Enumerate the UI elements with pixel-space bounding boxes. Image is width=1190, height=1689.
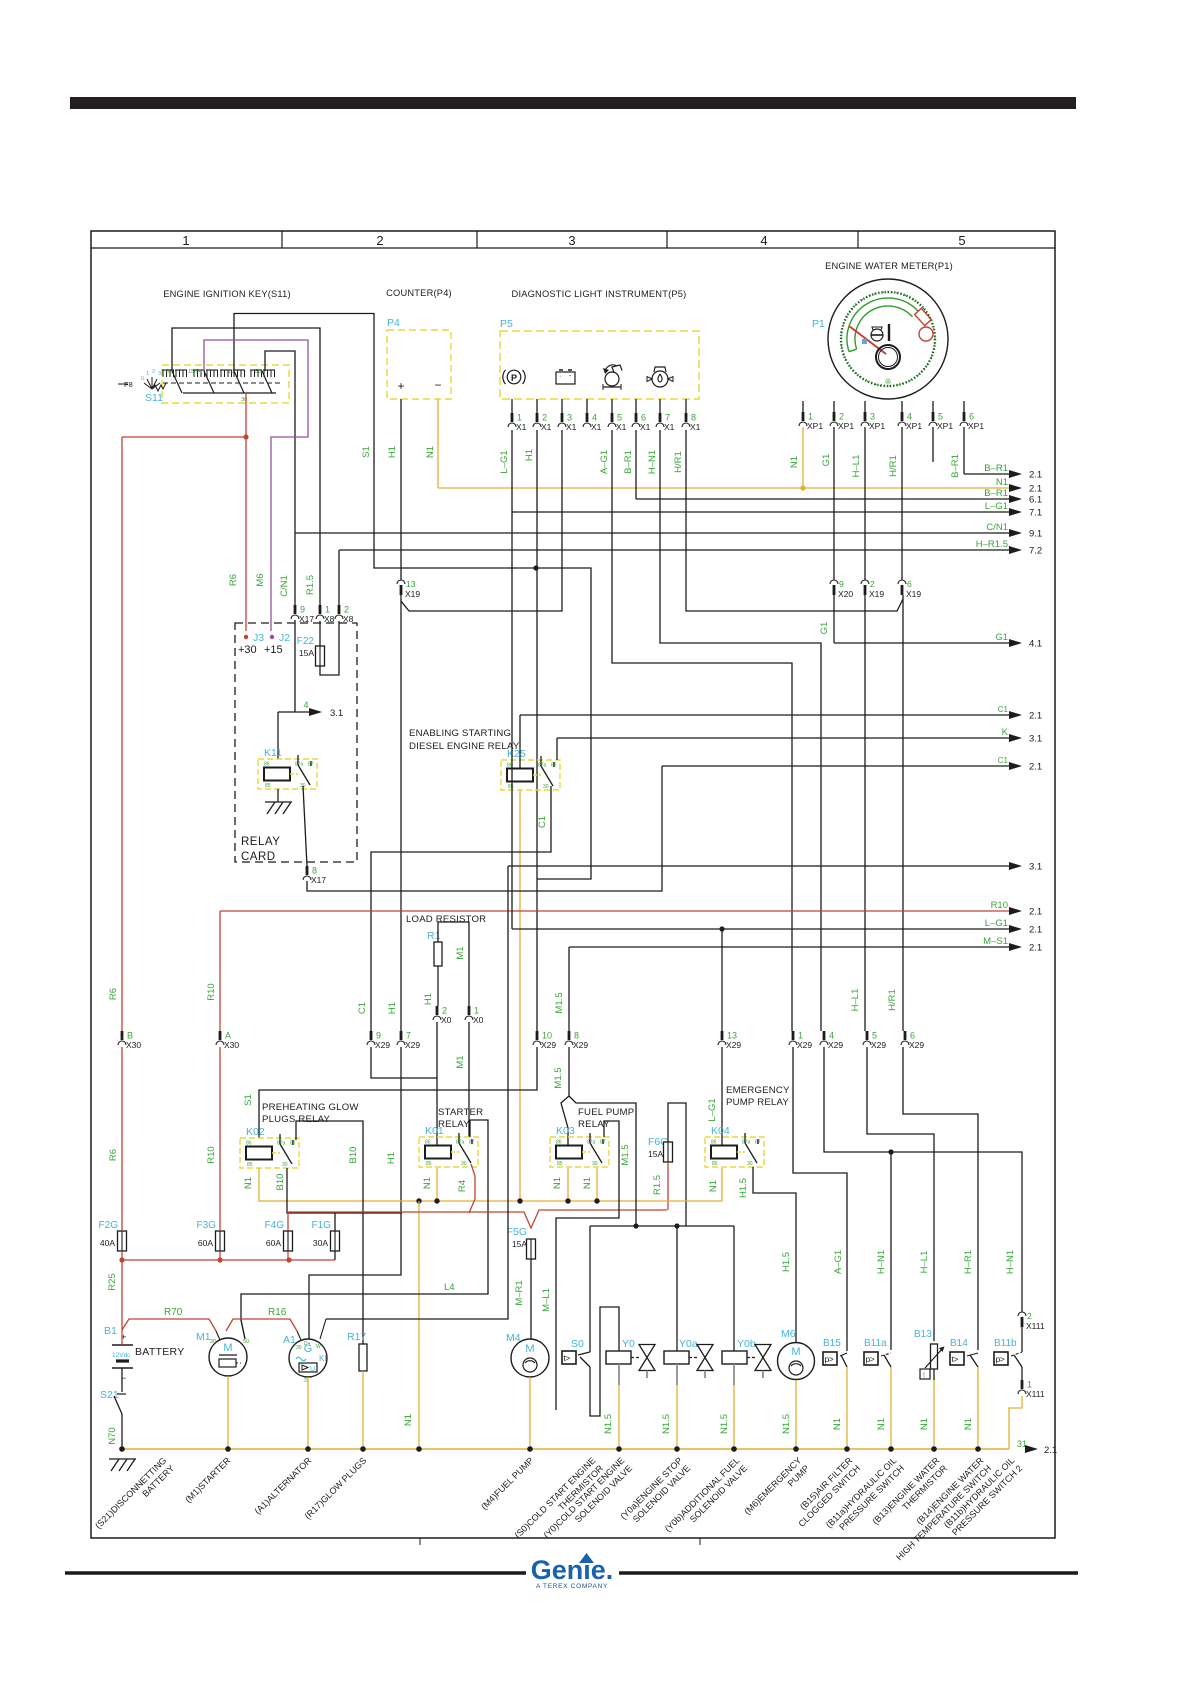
svg-text:R1.5: R1.5 [305,575,316,595]
Genie logo i-roof [579,1553,594,1563]
svg-text:4: 4 [303,700,308,710]
wire H/R1 XP1-4 to X19-6 [901,427,903,580]
wire P5 pin 8 stub [685,399,687,413]
wire P5 pin 2 stub [536,399,538,413]
S11 switch blades [172,371,182,393]
connector pin X30-A [219,1031,222,1040]
svg-text:X1: X1 [616,422,627,432]
svg-text:6: 6 [907,579,912,589]
counter P4 box [387,330,451,399]
wire F1G top [334,1213,336,1231]
svg-text:86: 86 [246,1141,252,1147]
wire M1.5 X29-8 to K03 coil [561,1047,569,1146]
svg-text:2: 2 [344,605,349,615]
wire battery plus stub [121,1330,123,1345]
svg-text:H/R1: H/R1 [673,451,684,473]
frame column divider 4 [666,231,668,248]
svg-text:H1: H1 [386,1152,397,1164]
svg-text:87a: 87a [538,763,547,769]
junction ground bus x=734 [731,1446,737,1452]
svg-text:X30: X30 [126,1040,141,1050]
wire P1 pin 1 stub [802,401,804,412]
svg-text:N1: N1 [403,1414,414,1426]
svg-text:X29: X29 [375,1040,390,1050]
wire B10 K02-87 to R17 [296,1121,363,1344]
svg-text:8: 8 [312,866,317,876]
svg-text:M1.5: M1.5 [553,1067,564,1088]
junction ground bus x=796 [793,1446,799,1452]
svg-text:D+: D+ [304,1341,311,1347]
wire N1 K01 coil drop [436,1168,438,1201]
S11 contact combs [162,369,174,371]
svg-text:H1.5: H1.5 [738,1178,749,1198]
svg-text:4: 4 [760,233,767,248]
connector pin X19-2 [861,580,869,584]
svg-text:N1: N1 [243,1177,254,1189]
svg-text:10: 10 [542,1031,552,1041]
junction N1 bus x=437 [434,1198,439,1203]
svg-text:A–G1: A–G1 [599,450,610,474]
connector pin X1-6 [635,413,638,422]
svg-text:R25: R25 [107,1273,118,1290]
junction ground bus x=419 [416,1446,422,1452]
svg-text:M1.5: M1.5 [620,1144,631,1165]
wire P5 pin 3 stub [561,399,563,413]
key zigzag link [152,383,166,391]
wire K11 coil to ground [277,789,279,802]
wire R25 battery feed [121,1260,123,1330]
wire M-L1 K03-87 to fuel pump [556,1121,619,1410]
svg-text:L4: L4 [444,1282,455,1293]
svg-text:B10: B10 [275,1174,286,1191]
svg-text:N1: N1 [832,1418,843,1430]
label B11b hydraulic oil pressure switch 2 [942,1455,1024,1537]
svg-text:M–L1: M–L1 [541,1288,552,1312]
fold tick marks [419,1538,421,1545]
wire P1 pin 5 stub [932,401,934,412]
connector pin XP1-4 [901,412,904,421]
wire H/R1 X19-6 down to X29-6 [902,595,904,1031]
svg-text:L–G1: L–G1 [499,450,510,473]
svg-text:B1: B1 [104,1325,117,1337]
connector pin X29-9 [370,1031,373,1040]
wire feed to Y0b [733,1226,735,1351]
svg-text:KI: KI [319,1354,327,1363]
svg-text:2.1: 2.1 [1029,711,1042,722]
svg-text:F2G: F2G [99,1220,119,1231]
svg-text:30: 30 [543,784,549,790]
sheet arrow C1 2.1 upper [520,714,1011,716]
svg-text:30: 30 [592,1161,598,1167]
svg-text:H–R1: H–R1 [963,1250,974,1274]
connector pin X19-13 [397,580,405,584]
svg-text:N1: N1 [919,1418,930,1430]
svg-text:BATTERY: BATTERY [135,1346,185,1358]
svg-text:FUEL PUMP: FUEL PUMP [578,1107,634,1118]
junction ground bus x=308 [305,1446,311,1452]
svg-text:+: + [397,379,404,393]
solenoid valve Y0b [722,1351,747,1364]
svg-text:X29: X29 [405,1040,420,1050]
wire R10 X30-A to F3G [219,1047,221,1231]
svg-text:K02: K02 [246,1126,265,1138]
svg-text:1: 1 [517,413,522,423]
svg-text:87a: 87a [277,1141,286,1147]
wire H-L1 X19-2 down to X29-5 [864,595,866,1031]
connector pin X29-7 [400,1031,403,1040]
svg-text:2: 2 [870,579,875,589]
svg-text:PREHEATING GLOW: PREHEATING GLOW [262,1102,359,1113]
wire S1 down to X29-10 [536,430,538,1031]
svg-text:X20: X20 [838,589,853,599]
sheet arrow M-S1 2.1 [569,946,1011,948]
wire G1 XP1-2 to X20-9 [833,427,835,580]
svg-text:2.1: 2.1 [1029,925,1042,936]
wire P1 pin 4 stub [901,401,903,412]
wire P5 pin 4 stub [586,399,588,413]
svg-text:B: B [127,1031,133,1041]
svg-text:C1: C1 [537,816,548,828]
diagnostic light instrument P5 box [500,331,699,399]
svg-text:·: · [559,373,561,380]
label Y0b additional fuel solenoid valve [663,1455,749,1541]
svg-text:30: 30 [282,1162,288,1168]
wire N1 drop to bottom bus [418,1201,420,1449]
wire H-L1 X29-5 to B13 [867,1047,934,1341]
svg-text:9.1: 9.1 [1029,529,1042,540]
svg-text:X29: X29 [541,1040,556,1050]
svg-text:B–R1: B–R1 [950,454,961,478]
svg-text:K03: K03 [556,1125,575,1137]
svg-text:7.1: 7.1 [1029,508,1042,519]
svg-text:M–S1: M–S1 [983,936,1008,947]
wire M-R1 F5G to M4 [530,1259,532,1339]
svg-text:S11: S11 [145,392,163,404]
svg-text:EMERGENCY: EMERGENCY [726,1085,790,1096]
label Y0 cold start engine solenoid valve [542,1455,635,1548]
svg-text:U: U [310,1366,315,1373]
svg-text:3: 3 [158,371,161,377]
svg-text:H–R1.5: H–R1.5 [976,539,1008,550]
svg-text:4: 4 [592,413,597,423]
wire stub XP1-5 [932,427,934,462]
svg-text:N1.5: N1.5 [603,1414,614,1434]
label B11a hydraulic oil pressure switch [824,1455,906,1537]
connector pin X29-10 [536,1031,539,1040]
svg-text:M1: M1 [455,1055,466,1068]
wire battery minus to S21 [121,1368,123,1392]
svg-text:1: 1 [182,233,189,248]
svg-text:1: 1 [474,1006,479,1016]
svg-text:X1: X1 [591,422,602,432]
svg-text:t>: t> [564,1353,571,1363]
B11a switch blade [884,1355,891,1367]
svg-text:7: 7 [406,1031,411,1041]
svg-text:N1: N1 [996,477,1008,488]
fuse F3G [216,1231,225,1251]
svg-text:15A: 15A [512,1239,527,1249]
engine water meter P1 gauge [828,279,948,399]
wire P1 pin 2 stub [833,401,835,412]
svg-text:F3G: F3G [197,1220,217,1231]
svg-text:M: M [223,1342,232,1354]
wire C1 X29-9 to K01 coil [371,1047,437,1078]
svg-text:XP1: XP1 [869,421,885,431]
wire R1 bottom to X0-2 [437,966,439,1006]
svg-text:L–G1: L–G1 [985,501,1008,512]
svg-text:C1: C1 [998,756,1009,765]
wire K02-30 down to black feed line [287,1168,402,1213]
wire A-G1 X1-5 to X29-1 [612,430,792,1031]
svg-text:X8: X8 [324,614,335,624]
svg-text:F22: F22 [297,636,315,647]
battery B1 [112,1344,133,1346]
svg-text:X1: X1 [566,422,577,432]
connector pin X20-9 [830,580,838,584]
S11 common dashed line [163,382,281,384]
fuel pump M4 [511,1339,549,1377]
P1 red zone [915,308,932,325]
ground bus arrow 2.1 [1025,1445,1038,1453]
svg-text:R6: R6 [228,574,239,586]
svg-text:3: 3 [567,413,572,423]
svg-text:Y0a: Y0a [679,1338,698,1350]
sheet arrow K 3.1 [557,737,1011,739]
svg-text:H1: H1 [524,449,535,461]
resistor R17 glow plugs [359,1344,367,1371]
svg-text:DIESEL ENGINE RELAY: DIESEL ENGINE RELAY [409,741,520,752]
ground relay card [265,801,292,803]
wire c1 feed to K25 coil [519,715,521,768]
svg-text:N1.5: N1.5 [781,1414,792,1434]
wire X0-2 to K01 coil [436,1022,438,1146]
wire Y0a to ground bus [676,1385,678,1449]
P5 icon glow plug / fuel [652,371,668,387]
wire F22 to X8-2 [320,621,339,675]
svg-text:S1: S1 [243,1094,254,1106]
P5 icon battery [556,372,575,384]
svg-text:12Vdc: 12Vdc [112,1352,131,1359]
label B13 engine water thermistor [870,1455,949,1534]
wire F6G top to valve feed line [668,1103,686,1226]
svg-text:2.1: 2.1 [1029,907,1042,918]
svg-text:A TEREX COMPANY: A TEREX COMPANY [536,1583,608,1590]
wire P5 pin 6 stub [635,399,637,413]
svg-text:B11b: B11b [994,1338,1017,1349]
svg-text:R10: R10 [206,983,217,1000]
P1 gauge scale arc [847,298,919,352]
svg-text:F4G: F4G [265,1220,285,1231]
label A1 alternator [253,1455,314,1516]
A1 right terminal diag [320,1319,326,1339]
M1 terminal 50 [241,1320,245,1339]
wire R17 to ground bus [362,1371,364,1449]
label B14 engine water high temperature switch [886,1455,993,1562]
wire N1 yellow relay bus [259,1168,722,1201]
svg-text:XP1: XP1 [838,421,854,431]
wire Y0 to ground bus [618,1385,620,1449]
svg-text:3.1: 3.1 [1029,862,1042,873]
svg-text:B13: B13 [914,1329,932,1340]
svg-text:60A: 60A [198,1238,213,1248]
connector pin X29-13 [721,1031,724,1040]
svg-text:M6: M6 [781,1328,796,1340]
svg-text:H1.5: H1.5 [781,1252,792,1272]
svg-text:R70: R70 [164,1307,183,1318]
wire F4G top to red bus [287,1212,289,1231]
junction ground bus x=619 [616,1446,622,1452]
wire P5 pin 5 stub [611,399,613,413]
wire M6 purple ignition to J2 [204,340,308,631]
svg-text:50: 50 [243,1339,249,1345]
svg-text:87: 87 [290,1141,296,1147]
junction ground bus x=934 [931,1446,937,1452]
wire P1 pin 6 stub [963,401,965,412]
alternator A1 [289,1339,327,1377]
connector pin X30-B [121,1031,124,1040]
svg-text:X29: X29 [871,1040,886,1050]
svg-text:X19: X19 [869,589,884,599]
svg-text:K: K [1002,727,1009,738]
svg-text:N1: N1 [422,1177,433,1189]
svg-text:3.1: 3.1 [1029,734,1042,745]
wire R6 X30-B to F2G [121,1047,123,1231]
svg-text:Y0b: Y0b [737,1338,756,1350]
svg-text:5: 5 [872,1031,877,1041]
svg-text:X1: X1 [541,422,552,432]
svg-text:M: M [791,1346,800,1358]
svg-text:N1.5: N1.5 [719,1414,730,1434]
terminal J2 [270,635,274,639]
P5 icon engine oil pressure [605,372,619,386]
wire from X19-13 jog to X1-3 [401,430,562,611]
svg-text:H/R1: H/R1 [888,455,899,477]
connector pin X1-1 [511,413,514,422]
svg-text:B–R1: B–R1 [623,450,634,474]
wire L-G1 to X29-13 [721,929,723,1031]
svg-text:8: 8 [574,1031,579,1041]
svg-text:8: 8 [691,413,696,423]
svg-text:R1.5: R1.5 [652,1175,663,1195]
wire B14 to ground bus [977,1367,979,1449]
svg-text:LOAD RESISTOR: LOAD RESISTOR [406,914,486,925]
frame column divider 3 [476,231,478,248]
connector pin X29-1 [792,1031,795,1040]
frame column divider 5 [857,231,859,248]
connector pin XP1-1 [802,412,805,421]
svg-text:X1: X1 [516,422,527,432]
wire H-R1 X29-6 to B14 [903,1047,978,1350]
wire M4 to ground bus [529,1377,531,1449]
wire S1 from ignition switch [234,314,591,880]
solenoid valve Y0a [664,1351,689,1364]
red battery bus under fuses [121,1251,123,1260]
svg-text:X1: X1 [690,422,701,432]
svg-text:STARTER: STARTER [438,1107,483,1118]
svg-text:H1: H1 [387,1002,398,1014]
sheet arrow 3.1 mid [508,865,1011,867]
svg-text:2.1: 2.1 [1029,943,1042,954]
svg-text:9: 9 [839,579,844,589]
wire K11-30 to X17-8 [303,786,307,866]
svg-text:X29: X29 [909,1040,924,1050]
junction N1 [800,485,805,490]
B13 t box [920,1369,930,1379]
svg-text:5: 5 [617,413,622,423]
sheet arrow N1 2.1 (yellow) [438,487,1011,489]
wire feed to Y0a [676,1226,678,1351]
wire 4 from X17-9 to K11 and arrow 3.1 [294,620,296,712]
sheet arrow L-G1 2.1 [512,928,1011,930]
svg-text:RELAY: RELAY [241,836,280,848]
wire K from K25-87 [556,738,558,760]
svg-text:CARD: CARD [241,851,276,863]
sheet arrow C1 2.1 lower [662,765,1011,767]
wire R16 M1 to A1 [226,1319,297,1331]
svg-text:X111: X111 [1026,1321,1045,1331]
junction N1 bus x=520 [517,1198,522,1203]
drawing frame [91,231,1055,1538]
svg-text:H–L1: H–L1 [850,989,861,1012]
svg-text:N1: N1 [963,1418,974,1430]
svg-text:B10: B10 [348,1147,359,1164]
wire R1.5 F6G bottom to red bus [667,1162,669,1210]
wire M1.5 branch to valve feed line [569,1096,636,1226]
starter motor M1 [209,1338,247,1376]
terminal J3 [244,635,248,639]
svg-text:30: 30 [461,1161,467,1167]
connector pin X19-6 [898,580,906,584]
wire C1 K25-30 to X29-9 [371,786,551,1031]
svg-text:15A: 15A [299,648,314,658]
connector pin XP1-3 [864,412,867,421]
svg-text:XP1: XP1 [906,421,922,431]
svg-text:85: 85 [265,783,271,789]
junction ground bus x=228 [225,1446,231,1452]
svg-text:85: 85 [426,1161,432,1167]
wire H1.5 K04-30 to M6 [753,1167,796,1343]
label S0 cold start engine thermistor [513,1455,606,1548]
svg-text:13: 13 [727,1031,737,1041]
svg-text:15A: 15A [648,1149,663,1159]
svg-text:N1: N1 [708,1180,719,1192]
svg-text:X0: X0 [441,1015,452,1025]
svg-text:87a: 87a [456,1140,465,1146]
svg-text:5: 5 [958,233,965,248]
valve feed line [590,1225,734,1227]
wire A1 to sheet 3.1 line [326,866,508,1319]
wire R6 horizontal branch [122,436,246,438]
junction ground bus x=530 [527,1446,533,1452]
svg-text:X17: X17 [299,614,314,624]
svg-text:86: 86 [711,1140,717,1146]
svg-text:ENGINE IGNITION KEY(S11): ENGINE IGNITION KEY(S11) [163,289,291,299]
svg-text:87: 87 [551,763,557,769]
svg-text:1: 1 [1027,1380,1032,1390]
svg-text:85: 85 [557,1161,563,1167]
wire S21 to ground bus [121,1414,123,1449]
wire S1 X29-10 to K02 coil [259,1047,537,1138]
svg-text:R6: R6 [108,988,119,1000]
svg-text:N1: N1 [876,1418,887,1430]
svg-text:p>: p> [825,1354,834,1364]
wire X17-8 east to c1 arrow [307,766,662,891]
wire R6 down to X30-B [121,437,123,1031]
junction ground bus x=847 [844,1446,850,1452]
connector pin X111-1 [1021,1380,1024,1389]
svg-text:X29: X29 [828,1040,843,1050]
svg-text:C1: C1 [357,1002,368,1014]
